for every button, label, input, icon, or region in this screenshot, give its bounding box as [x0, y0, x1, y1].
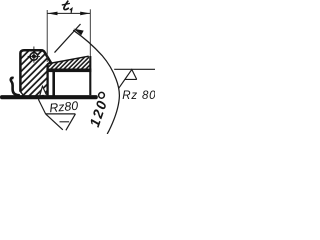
center mark cross vertical	[33, 47, 35, 63]
right rough symbol	[119, 70, 137, 89]
left leader notch white	[39, 86, 46, 95]
left flag V right	[66, 114, 76, 130]
dim line t1	[48, 12, 91, 14]
base surface line	[0, 95, 98, 99]
hatch wedge body	[47, 56, 90, 69]
dim ext line left	[46, 10, 48, 62]
dim arrow right	[80, 12, 90, 16]
left flag shelf	[46, 113, 76, 115]
label t1	[64, 1, 68, 9]
left flag V left	[46, 114, 63, 130]
plate hole left wall	[52, 72, 55, 96]
right surface line	[114, 68, 155, 70]
center mark cross horizontal	[28, 55, 40, 57]
hook lip	[11, 78, 20, 95]
center mark circle	[30, 53, 38, 61]
dim arrow left	[47, 12, 57, 16]
hole right wall	[89, 56, 91, 95]
block outline	[20, 50, 51, 91]
block bottom notch	[20, 92, 24, 97]
ridge line	[47, 56, 88, 64]
angle arc	[73, 30, 119, 134]
left leader	[39, 86, 47, 114]
left flag bar	[60, 121, 70, 123]
angle side line	[55, 24, 81, 53]
svg-text:Rz 80: Rz 80	[122, 90, 155, 102]
svg-text:Rz80: Rz80	[49, 99, 79, 115]
thick sheet band	[46, 69, 91, 73]
degree mark	[99, 92, 105, 98]
hole left wall	[46, 64, 48, 96]
angle arrow	[74, 29, 84, 36]
hatch block body	[20, 49, 51, 96]
dim ext line right	[89, 9, 91, 56]
